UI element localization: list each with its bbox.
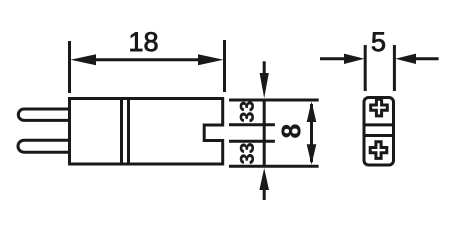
arrowhead 8 down (307, 144, 317, 165)
front view outline (364, 98, 394, 166)
extension line left of dim 18 (68, 41, 71, 93)
contact cross bottom (370, 142, 387, 159)
arrowhead 5 left (344, 54, 365, 64)
pin 2 (18, 140, 70, 152)
label 5 (372, 32, 385, 51)
label 33 upper (240, 102, 254, 123)
arrowhead 33 down (260, 73, 269, 98)
body outline side view (70, 99, 223, 165)
front view separator upper (364, 123, 394, 126)
front view separator lower (364, 134, 394, 137)
bottom edge extension line (229, 165, 319, 168)
seam line right (127, 99, 130, 165)
label 33 lower (240, 143, 254, 164)
notch bottom extension line (229, 140, 275, 143)
seam line left (120, 99, 123, 165)
notch top extension line (229, 123, 275, 126)
arrowhead 8 up (307, 102, 317, 123)
arrowhead 18 left (71, 54, 97, 65)
down arrow tail (263, 61, 266, 75)
contact cross top (371, 99, 388, 116)
label 18 (130, 32, 157, 51)
dimension 5 right tail (414, 57, 439, 60)
arrowhead 18 right (198, 54, 224, 65)
dimension line 8 (310, 104, 313, 162)
extension line right of dim 5 (393, 45, 396, 91)
up arrow tail (263, 187, 266, 200)
extension line left of dim 5 (364, 45, 367, 91)
arrowhead 33 up (259, 168, 269, 190)
dimension line 18 (92, 58, 202, 61)
dimension line 33/33 vertical (263, 100, 266, 166)
top edge extension line (229, 99, 319, 102)
dimension 5 left tail (320, 57, 346, 60)
label 8 (282, 125, 301, 138)
arrowhead 5 right (395, 54, 416, 64)
extension line right of dim 18 (223, 40, 226, 92)
pin 1 (18, 109, 69, 120)
